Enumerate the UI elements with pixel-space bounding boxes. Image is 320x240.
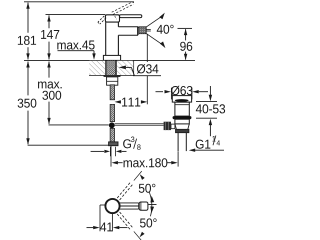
dimension text 350 — [18, 99, 37, 108]
swivel arc down arrowhead — [150, 206, 154, 213]
tick circle to 41 extension — [100, 204, 105, 206]
dimension 111 line — [115, 100, 121, 103]
max300 lower reference line — [49, 124, 109, 126]
waste locknut — [176, 129, 189, 132]
lever knob top view — [139, 202, 148, 210]
dimension text 300 — [42, 91, 61, 100]
pop-up rod clevis knob — [164, 122, 171, 130]
extension line top of raised lever (181 ref) — [24, 1, 134, 3]
dimension 41 line — [87, 227, 94, 229]
dimension text 41 — [100, 223, 112, 232]
deck hatching left — [89, 61, 105, 75]
dimension text max180 — [124, 158, 168, 167]
deck right edge — [133, 60, 135, 75]
dimension text 40-53 — [196, 104, 225, 113]
swivel fan upper line with arrow — [147, 16, 163, 27]
deck hole walls — [104, 60, 106, 75]
max180 extension line right — [177, 151, 179, 166]
lever top view lines — [119, 202, 138, 204]
dimension O63 line — [156, 91, 164, 93]
dashed lever lowered-left position — [98, 16, 104, 22]
washer under deck — [104, 75, 120, 76]
dimension 350 vertical line — [27, 62, 29, 96]
cap pivot dashes — [115, 16, 117, 19]
swivel reference horizontal line — [148, 204, 156, 206]
threaded shank through deck — [107, 60, 116, 77]
max180 extension line left — [110, 146, 112, 167]
faucet cap — [105, 15, 119, 22]
dimension max300 vertical line — [48, 62, 50, 78]
label text G3/8 — [123, 139, 131, 148]
water jet lines — [147, 28, 151, 30]
waste o-ring seal — [173, 116, 192, 119]
faucet body right edge upper — [117, 22, 119, 27]
dimension text 111 — [122, 98, 140, 107]
angle text 50deg lower — [140, 218, 157, 227]
label O34 underline — [133, 75, 161, 77]
extension line cap top (147 ref) — [46, 14, 106, 16]
waste flange — [172, 96, 191, 103]
label text O34 — [137, 64, 159, 74]
faucet body left edge — [105, 22, 107, 55]
dimension 96 vertical line — [185, 29, 187, 40]
dimension 147 vertical line — [48, 15, 50, 28]
dimension text max — [38, 81, 62, 88]
top view body circle — [105, 199, 119, 213]
label G1 1/4 arrow line — [189, 149, 195, 152]
waste drain slot — [175, 99, 189, 102]
label max.45 with leader — [57, 41, 94, 50]
upper 50deg arc end arrow — [140, 174, 145, 180]
mounting nut — [107, 77, 118, 85]
label text G1 1/4 — [196, 140, 211, 149]
lower 50deg arc end arrow — [140, 232, 145, 238]
40-53 lower reference line — [196, 117, 217, 119]
40-53 upper reference line — [196, 101, 217, 103]
dimension text 147 — [41, 30, 59, 39]
dimension text O63 — [171, 86, 192, 96]
dimension max180 line — [112, 161, 118, 164]
aerator with knurl hatch — [139, 27, 147, 34]
swivel arc — [149, 192, 152, 216]
deck hatching right — [117, 61, 133, 75]
dashed lever 50deg lower position — [117, 214, 131, 230]
waste tailpipe — [177, 133, 179, 151]
50deg upper thin extension line — [134, 171, 142, 180]
circle centerline extension — [111, 214, 113, 232]
waste upper body — [175, 102, 189, 116]
waste lower body — [175, 119, 189, 124]
deck surface line — [24, 59, 103, 61]
dashed lever raised position — [113, 4, 134, 14]
angle text 50deg upper — [139, 184, 156, 193]
flexible supply hose upper part — [110, 85, 115, 100]
dimension text 96 — [180, 42, 192, 51]
swivel fan lower line with arrow — [147, 34, 163, 45]
flexible supply hose lower part — [110, 104, 115, 121]
dimension 40-53 lower arrow — [209, 119, 212, 125]
41 extension line left — [99, 205, 101, 231]
spout outline — [118, 27, 137, 36]
pop-up rod clevis stem — [171, 124, 175, 129]
lever handle side view — [120, 15, 142, 18]
G3/8 thread dimension marks — [109, 147, 111, 156]
angle text 40deg — [157, 25, 174, 34]
dimension text 181 — [18, 36, 36, 45]
extension line aerator tip lower — [146, 76, 148, 104]
dashed lever 50deg upper position — [120, 184, 134, 200]
waste taper — [175, 124, 177, 129]
faucet body right edge lower — [117, 35, 119, 55]
reference tick from 40deg to 96 dim — [178, 27, 193, 29]
extension line aerator tip upper — [146, 34, 148, 62]
faucet base plate — [103, 55, 120, 60]
350 lower reference line — [28, 144, 109, 146]
pop-up rod ball joint — [109, 122, 115, 128]
dimension 40-53 upper arrow — [209, 86, 211, 96]
hose below ball joint — [110, 128, 115, 142]
waste flange extension lines — [170, 88, 172, 100]
deck cross-section bottom line — [89, 74, 105, 76]
G3/8 connector nut — [109, 142, 118, 146]
50deg lower thin extension line — [134, 231, 142, 240]
label O34 leader arrow — [119, 66, 126, 70]
pop-up horizontal rod — [115, 123, 164, 125]
swivel arc up arrowhead — [150, 196, 154, 203]
dimension 181 vertical line — [27, 3, 29, 33]
